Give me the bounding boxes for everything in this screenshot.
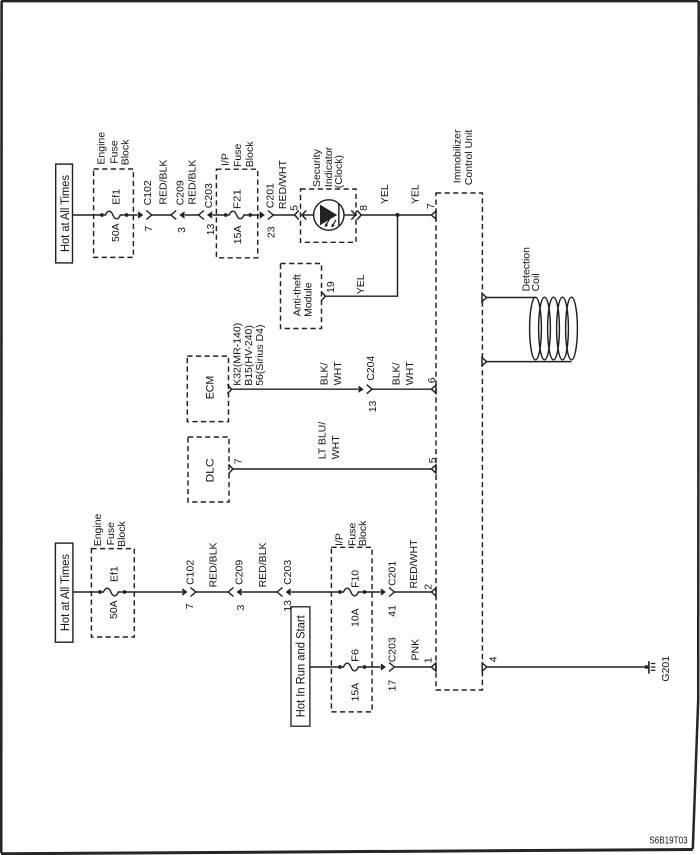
connector C203 pin 17	[381, 663, 395, 672]
svg-text:Hot In Run and Start: Hot In Run and Start	[293, 615, 307, 718]
svg-text:C201: C201	[265, 183, 277, 208]
svg-text:C203: C203	[282, 560, 294, 585]
svg-text:Block: Block	[116, 520, 128, 546]
I/P Fuse Block (bottom) dashed box	[331, 547, 372, 712]
svg-text:RED/BLK: RED/BLK	[208, 542, 220, 587]
svg-text:Block: Block	[244, 141, 256, 167]
connector C209 pin 3 (bottom)	[228, 588, 242, 597]
svg-text:50A: 50A	[110, 223, 122, 242]
DLC dashed box	[188, 437, 229, 502]
svg-text:BLK/: BLK/	[318, 362, 330, 385]
wire coil top	[487, 297, 536, 299]
svg-text:K32(MR-140): K32(MR-140)	[232, 323, 244, 386]
connector C204 pin 13	[359, 385, 373, 394]
pin 5 of security indicator	[295, 210, 299, 219]
svg-text:2: 2	[423, 584, 435, 590]
svg-text:Ef1: Ef1	[111, 189, 123, 205]
svg-text:41: 41	[387, 605, 399, 617]
svg-text:F6: F6	[349, 649, 361, 662]
wire DLC to immobilizer pin 5	[233, 468, 432, 470]
svg-text:Block: Block	[120, 139, 132, 165]
svg-text:RED/WHT: RED/WHT	[408, 539, 420, 589]
fuse F6 15A	[338, 663, 366, 671]
node junction	[395, 213, 399, 217]
svg-text:F10: F10	[349, 570, 361, 588]
coil pin top	[482, 293, 487, 301]
svg-text:ECM: ECM	[204, 376, 216, 400]
Immobilizer Control Unit dashed box	[436, 193, 482, 690]
Security Indicator dashed box	[301, 189, 357, 242]
svg-text:B15(HV-240): B15(HV-240)	[243, 325, 255, 386]
connector C102 pin 7 (bottom)	[182, 588, 196, 597]
wire ECM to immobilizer pin 6	[232, 388, 432, 390]
svg-text:C102: C102	[184, 560, 196, 585]
svg-text:50A: 50A	[108, 600, 120, 619]
wire junction down to anti-theft	[326, 215, 398, 296]
svg-text:13: 13	[282, 600, 294, 612]
immobilizer pin 7 triangle	[431, 211, 436, 219]
svg-text:Control Unit: Control Unit	[463, 130, 475, 186]
svg-text:3: 3	[176, 227, 188, 233]
svg-text:Hot at All Times: Hot at All Times	[60, 554, 72, 631]
svg-text:5: 5	[427, 457, 439, 463]
power source box "Hot at All Times" (bottom)	[55, 543, 73, 642]
svg-text:C201: C201	[387, 561, 399, 586]
connector C102 pin 7 (top)	[138, 211, 152, 220]
svg-text:4: 4	[487, 656, 499, 662]
svg-text:17: 17	[387, 680, 399, 692]
connector C201 pin 41	[381, 588, 395, 597]
LED indicator lamp	[314, 200, 344, 230]
svg-text:Hot at All Times: Hot at All Times	[60, 175, 72, 252]
wire: run/start rail y=667	[310, 666, 432, 668]
wire pin8 to immobilizer pin 7	[361, 214, 431, 216]
svg-text:C203: C203	[203, 183, 215, 208]
svg-text:Engine: Engine	[96, 132, 108, 165]
immobilizer pin 2 triangle	[431, 588, 436, 596]
svg-text:BLK/: BLK/	[390, 362, 402, 385]
svg-text:15A: 15A	[349, 683, 361, 702]
svg-text:Coil: Coil	[530, 273, 542, 291]
svg-text:RED/BLK: RED/BLK	[158, 160, 170, 205]
svg-text:7: 7	[425, 203, 437, 209]
svg-text:WHT: WHT	[404, 361, 416, 385]
svg-text:WHT: WHT	[332, 361, 344, 385]
fuse F21 15A	[224, 211, 252, 219]
svg-text:10A: 10A	[349, 608, 361, 627]
connector C209 pin 3 (top)	[171, 211, 185, 220]
svg-text:I/P: I/P	[220, 153, 232, 166]
pin 8 of security indicator	[344, 214, 355, 216]
Engine Fuse Block (bottom) dashed box	[91, 549, 134, 637]
wire: top power rail y=215	[73, 214, 295, 216]
svg-text:56(Sirius D4): 56(Sirius D4)	[254, 325, 266, 386]
svg-text:13: 13	[367, 400, 379, 412]
svg-text:G201: G201	[660, 656, 672, 682]
immobilizer pin 5 triangle	[431, 465, 436, 473]
svg-text:RED/BLK: RED/BLK	[257, 542, 269, 587]
svg-text:Security: Security	[311, 148, 323, 187]
connector C203 pin 13 (bottom)	[277, 588, 291, 597]
svg-text:8: 8	[358, 205, 370, 211]
svg-text:7: 7	[233, 458, 245, 464]
ECM dashed box	[187, 356, 228, 422]
svg-text:7: 7	[184, 603, 196, 609]
coil pin bottom	[482, 358, 487, 366]
svg-text:I/P: I/P	[334, 533, 346, 546]
svg-text:C209: C209	[174, 180, 186, 205]
svg-text:7: 7	[143, 226, 155, 232]
svg-text:Fuse: Fuse	[232, 143, 244, 167]
immobilizer pin 4 triangle	[482, 663, 487, 671]
wire coil bottom	[487, 361, 572, 363]
detection coil windings	[530, 297, 542, 360]
svg-text:C204: C204	[365, 356, 377, 381]
svg-text:3: 3	[235, 605, 247, 611]
ECM pin	[227, 385, 231, 394]
immobilizer pin 6 triangle	[431, 385, 436, 393]
DLC pin 7	[229, 464, 233, 473]
fuse F10 10A	[338, 588, 366, 596]
wire: bottom power rail y=592	[73, 591, 432, 593]
svg-text:DLC: DLC	[205, 459, 217, 483]
svg-text:23: 23	[266, 226, 278, 238]
svg-text:RED/BLK: RED/BLK	[186, 160, 198, 205]
fuse Ef1 50A (bottom)	[98, 588, 126, 596]
svg-text:19: 19	[325, 281, 337, 293]
svg-text:YEL: YEL	[355, 274, 367, 294]
svg-text:PNK: PNK	[410, 639, 422, 661]
svg-text:C209: C209	[234, 560, 246, 585]
power source box "Hot at All Times" (top)	[56, 164, 73, 263]
connector C201 pin 23	[260, 211, 274, 220]
power source box "Hot In Run and Start"	[291, 607, 310, 726]
svg-text:Ef1: Ef1	[109, 566, 121, 582]
ground G201 symbol	[645, 665, 649, 669]
I/P Fuse Block (top) dashed box	[216, 169, 257, 258]
svg-text:15A: 15A	[232, 226, 244, 245]
svg-text:Immobilizer: Immobilizer	[452, 129, 464, 183]
svg-text:6: 6	[426, 377, 438, 383]
Engine Fuse Block (top) dashed box	[94, 169, 134, 257]
pin 19 of anti-theft module	[321, 292, 325, 301]
fuse Ef1 50A (top)	[100, 211, 128, 219]
svg-text:Engine: Engine	[92, 513, 104, 546]
svg-text:Module: Module	[303, 282, 315, 317]
svg-text:C102: C102	[142, 180, 154, 205]
svg-text:RED/WHT: RED/WHT	[277, 160, 289, 210]
svg-text:13: 13	[205, 224, 217, 236]
svg-text:1: 1	[423, 657, 435, 663]
svg-text:S6B19T03: S6B19T03	[649, 835, 688, 846]
svg-text:LT BLU/: LT BLU/	[316, 422, 328, 460]
wire to ground	[487, 666, 647, 668]
svg-text:Block: Block	[357, 520, 369, 546]
svg-text:YEL: YEL	[410, 184, 422, 204]
immobilizer pin 1 triangle	[431, 663, 436, 671]
svg-text:F21: F21	[231, 189, 243, 209]
svg-text:5: 5	[288, 205, 300, 211]
svg-text:WHT: WHT	[330, 435, 342, 459]
Anti-theft Module dashed box	[281, 264, 322, 329]
svg-text:(Clock): (Clock)	[333, 155, 345, 188]
connector C203 pin 13 (top)	[199, 211, 213, 220]
svg-text:C203: C203	[387, 637, 399, 662]
svg-text:YEL: YEL	[379, 184, 391, 204]
